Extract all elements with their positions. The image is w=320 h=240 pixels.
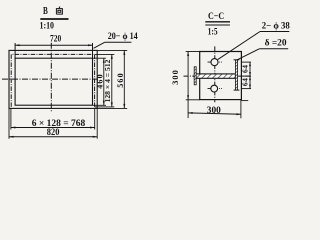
CJK glyph xiang : inner mouth [58, 10, 61, 12]
CJK glyph xiang : outer box [56, 9, 62, 15]
bottom edge overshoot right of panel corner [241, 100, 248, 102]
dimension 64 / 64 (right of panel) [240, 62, 251, 89]
flange plate outline 820x560 [9, 50, 97, 108]
svg-text:20− ϕ 14: 20− ϕ 14 [108, 32, 138, 42]
svg-text:1:5: 1:5 [208, 27, 218, 37]
crosshair through top hole [208, 61, 223, 63]
dimension 300 (bottom of panel) [188, 100, 241, 119]
view title B (xiang) 1:10 [40, 6, 69, 32]
flange plate edge (left vertical strip) [194, 67, 196, 85]
bolt hole top (phi38) [211, 59, 218, 66]
svg-text:128 × 4 = 512: 128 × 4 = 512 [103, 59, 112, 102]
duct opening 720x460 [15, 58, 92, 105]
dimension 820 (bottom) [9, 109, 97, 139]
hole callout 20-phi14 with leader [94, 32, 138, 48]
bolt hole bottom (phi38) [211, 85, 218, 92]
svg-text:720: 720 [50, 35, 61, 45]
CJK glyph xiang (drawn) : top tick [59, 7, 60, 9]
horizontal centerline [184, 75, 251, 77]
svg-text:1:10: 1:10 [40, 21, 55, 32]
svg-text:560: 560 [116, 72, 125, 88]
svg-text:B: B [43, 6, 48, 17]
svg-text:64: 64 [240, 65, 249, 74]
svg-text:C−C: C−C [208, 11, 224, 22]
svg-text:6 × 128 = 768: 6 × 128 = 768 [32, 118, 86, 128]
dimension 128x4=512 (right, middle) [95, 54, 115, 107]
stiffener plate with end caps [234, 60, 240, 90]
svg-text:300: 300 [207, 106, 221, 116]
panel 300x300 [200, 52, 242, 100]
svg-text:64: 64 [240, 78, 249, 87]
dimension 300 (left of panel) [170, 52, 200, 119]
horizontal centerline [2, 78, 99, 80]
dimension 720 (top) [15, 35, 92, 59]
svg-text:300: 300 [170, 69, 180, 85]
vertical centerline [214, 46, 216, 102]
hole callout 2-phi38 with leader [218, 21, 290, 59]
thickness callout delta=20 with leader [237, 39, 288, 60]
dimension 560 (right, outer) [97, 50, 127, 108]
section title C-C 1:5 [205, 11, 230, 37]
gusset plate delta=20 (hatched bar) [194, 74, 235, 78]
dimension 460 (right, inner) [93, 58, 106, 105]
dimension 6x128=768 (bottom) [11, 109, 95, 130]
crosshair through bottom hole [208, 88, 223, 90]
bolt gauge line rectangle (dash-dot) [11, 54, 94, 107]
svg-text:820: 820 [47, 128, 60, 138]
svg-text:2− ϕ 38: 2− ϕ 38 [262, 21, 290, 31]
svg-text:δ =20: δ =20 [265, 39, 287, 49]
vertical centerline [50, 43, 52, 111]
